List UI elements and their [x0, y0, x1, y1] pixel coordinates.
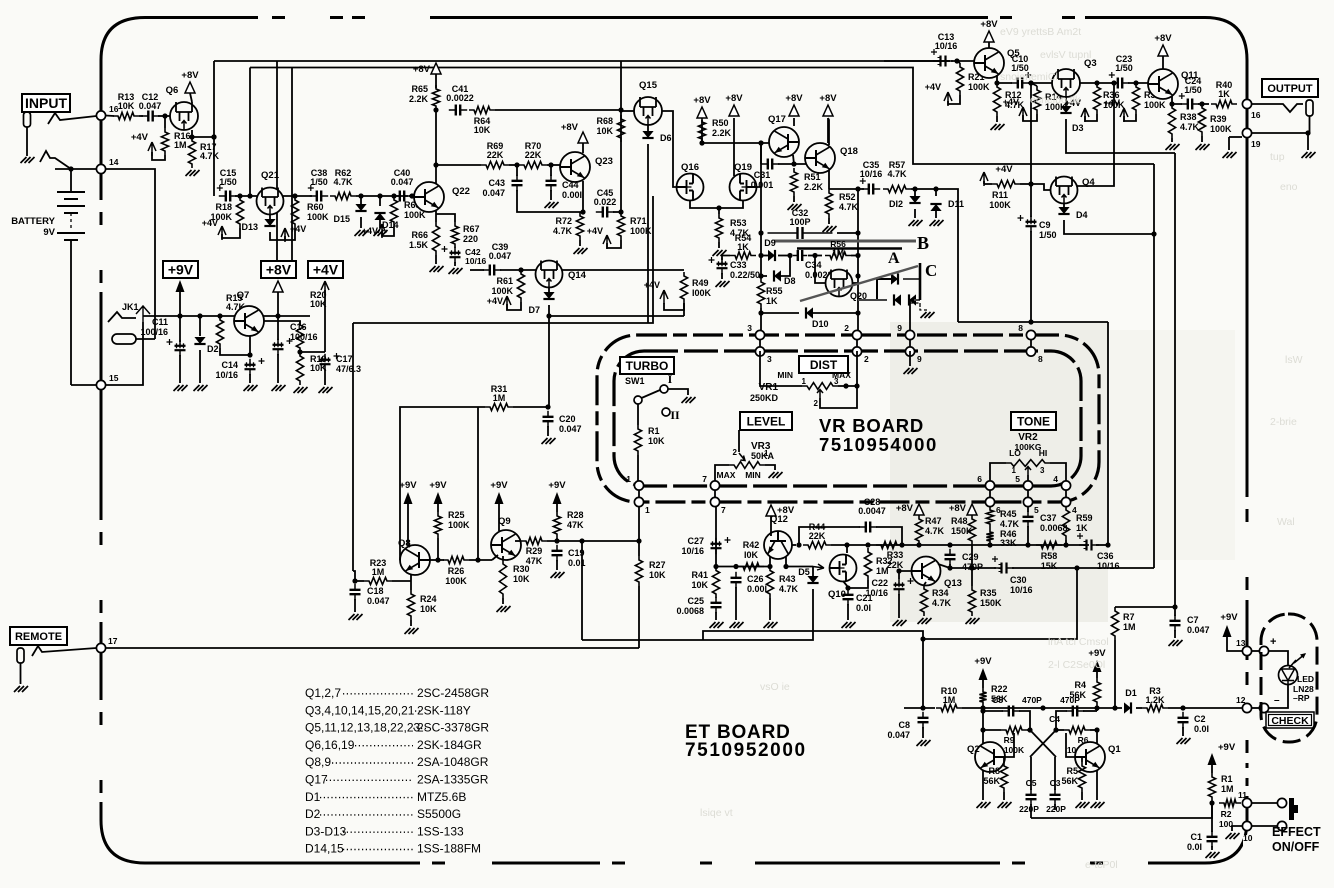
capacitor C10 — [1011, 82, 1018, 84]
+9V arrow — [979, 668, 988, 680]
resistor R24 — [407, 590, 414, 620]
node — [237, 193, 242, 198]
svg-text:9: 9 — [897, 323, 902, 333]
svg-text:1K: 1K — [766, 296, 778, 306]
node — [514, 162, 519, 167]
transistor Q23 — [560, 152, 590, 182]
transistor Q15 — [634, 97, 662, 125]
wire C36 to x1108 — [1096, 544, 1108, 546]
+4V label box — [308, 261, 343, 278]
wire staircase — [703, 631, 923, 709]
svg-text:16: 16 — [1251, 110, 1261, 120]
wire Q17 emitter — [793, 155, 794, 164]
capacitor C43 — [516, 165, 518, 176]
svg-text:4.7K: 4.7K — [553, 226, 573, 236]
svg-text:10/16: 10/16 — [865, 588, 888, 598]
wire Q15 drain — [662, 111, 676, 187]
svg-text:C9: C9 — [1039, 220, 1051, 230]
capacitor C12 — [141, 115, 148, 117]
svg-text:0.047: 0.047 — [482, 188, 505, 198]
svg-text:1K: 1K — [1218, 89, 1230, 99]
ground — [542, 438, 556, 444]
resistor R28 — [553, 512, 560, 538]
svg-text:0.0022: 0.0022 — [446, 93, 474, 103]
svg-text:Q1: Q1 — [1108, 744, 1121, 755]
svg-text:470P: 470P — [1060, 695, 1080, 705]
svg-text:+9V: +9V — [1218, 742, 1236, 753]
+4V arrow — [1019, 107, 1027, 121]
diode D8 — [774, 270, 781, 281]
+9V arrow — [1223, 625, 1232, 637]
ground — [174, 385, 188, 391]
wire main row — [831, 544, 919, 546]
resistor R25 — [434, 512, 441, 538]
wire base row — [436, 164, 481, 166]
resistor R30 — [499, 560, 506, 598]
svg-text:+8V: +8V — [693, 95, 711, 106]
capacitor C2 — [1182, 712, 1184, 718]
resistor R1 flip-flop — [1211, 765, 1213, 773]
svg-text:C30: C30 — [1010, 575, 1027, 585]
remote jack — [17, 648, 24, 663]
resistor R42 — [738, 563, 764, 570]
svg-text:3: 3 — [747, 323, 752, 333]
svg-text:10K: 10K — [691, 580, 708, 590]
svg-text:4.7K: 4.7K — [925, 526, 945, 536]
svg-text:1K: 1K — [737, 242, 749, 252]
transistor Q20 — [826, 270, 853, 297]
node — [791, 161, 796, 166]
svg-text:D3: D3 — [1072, 123, 1084, 133]
+9V arrow — [176, 280, 185, 292]
svg-text:R34: R34 — [932, 588, 949, 598]
svg-text:14: 14 — [109, 157, 119, 167]
svg-text:+8V: +8V — [777, 505, 795, 516]
capacitor C27 — [715, 538, 717, 544]
wire — [829, 188, 864, 190]
svg-text:lsiqe vt: lsiqe vt — [700, 807, 733, 819]
ground — [194, 385, 208, 391]
svg-text:Q1,2,7: Q1,2,7 — [305, 686, 341, 700]
svg-text:0.0047: 0.0047 — [858, 506, 886, 516]
svg-text:1M: 1M — [493, 393, 506, 403]
svg-text:11: 11 — [1238, 790, 1247, 800]
input jack sleeve contact — [40, 151, 71, 169]
resistor R65 — [432, 85, 439, 110]
svg-text:R67: R67 — [463, 224, 480, 234]
svg-text:C2: C2 — [1194, 714, 1206, 724]
ground — [930, 220, 944, 226]
wire — [106, 115, 114, 118]
wire D5 down — [582, 589, 813, 640]
svg-text:lsW: lsW — [1285, 354, 1303, 366]
wire — [492, 555, 498, 560]
ground — [545, 202, 559, 208]
ground stub pin10 — [1232, 826, 1242, 831]
svg-text:Q15: Q15 — [639, 80, 658, 91]
ground — [966, 618, 980, 624]
svg-text:Q6: Q6 — [166, 85, 179, 96]
node — [713, 564, 718, 569]
node — [409, 193, 414, 198]
VR board outer outline — [597, 335, 1099, 502]
svg-text:47K: 47K — [567, 520, 584, 530]
LEVEL label box — [740, 412, 792, 430]
transistor Q14 — [536, 261, 563, 288]
transistor Q8 — [400, 545, 430, 575]
svg-text:1M: 1M — [372, 567, 385, 577]
wire — [264, 321, 300, 325]
resistor R10 — [936, 704, 962, 711]
pin 11 — [1242, 798, 1251, 807]
svg-text:1: 1 — [645, 505, 650, 515]
node — [916, 542, 921, 547]
svg-text:10/16: 10/16 — [1010, 585, 1033, 595]
ground — [319, 387, 333, 393]
wire Q13 base — [899, 571, 912, 579]
resistor R16 — [164, 116, 166, 128]
+8V arrow — [967, 504, 977, 515]
svg-text:100K: 100K — [491, 286, 513, 296]
diode D4 — [1063, 203, 1065, 207]
diode D13 — [264, 219, 275, 226]
node — [162, 113, 167, 118]
power rail wire — [143, 315, 310, 317]
resistor R51 — [790, 168, 797, 196]
ground — [1302, 152, 1316, 158]
svg-text:2SA-1048GR: 2SA-1048GR — [417, 755, 489, 769]
svg-text:Q9: Q9 — [498, 516, 511, 527]
wire LED bottom — [1269, 684, 1288, 708]
resistor R72 — [576, 212, 583, 240]
resistor R40 — [1211, 100, 1237, 107]
svg-text:1K: 1K — [1076, 523, 1088, 533]
svg-text:220P: 220P — [1019, 804, 1039, 814]
svg-text:+4V: +4V — [1104, 98, 1120, 108]
ground — [551, 572, 565, 578]
svg-text:R25: R25 — [448, 510, 465, 520]
svg-text:R29: R29 — [526, 546, 543, 556]
svg-text:+4V: +4V — [362, 226, 378, 236]
resistor R6 — [1064, 726, 1090, 733]
svg-text:Q17: Q17 — [768, 114, 786, 125]
transistor Q13 — [912, 557, 941, 586]
svg-text:S5500G: S5500G — [417, 807, 461, 821]
svg-text:10K: 10K — [474, 125, 491, 135]
resistor R21 — [956, 63, 963, 95]
capacitor C24 — [1181, 103, 1188, 105]
svg-text:C17: C17 — [336, 354, 353, 364]
svg-text:100K: 100K — [448, 520, 470, 530]
svg-text:I00K: I00K — [692, 288, 712, 298]
svg-text:3: 3 — [834, 377, 839, 386]
resistor R9 — [1001, 726, 1027, 733]
ground — [991, 124, 1005, 130]
capacitor C23 — [1111, 82, 1118, 84]
svg-text:7: 7 — [721, 505, 726, 515]
svg-text:R8: R8 — [988, 766, 1000, 776]
svg-text:R58: R58 — [1041, 551, 1058, 561]
svg-text:4.7K: 4.7K — [887, 169, 907, 179]
svg-text:0.0I: 0.0I — [856, 603, 871, 613]
svg-text:+8V: +8V — [785, 93, 803, 104]
wire Q4 drain — [1077, 83, 1114, 186]
svg-text:D6: D6 — [660, 133, 672, 143]
input jack tip arm — [48, 113, 96, 124]
svg-text:C: C — [925, 261, 937, 280]
dashed ground stub — [910, 303, 928, 310]
capacitor C8 — [922, 712, 924, 718]
resistor R27 — [635, 556, 642, 586]
wire bottom run — [1031, 803, 1212, 818]
scan shading — [890, 322, 1108, 622]
pin 17 — [96, 643, 105, 652]
svg-text:0.00I: 0.00I — [747, 584, 767, 594]
node — [1209, 800, 1214, 805]
resistor R52 — [825, 189, 832, 218]
svg-text:OUTPUT: OUTPUT — [1267, 83, 1313, 95]
+8V arrow — [988, 42, 990, 48]
svg-text:+9V: +9V — [974, 656, 992, 667]
transistor Q7 — [234, 306, 264, 336]
svg-text:R47: R47 — [925, 516, 942, 526]
wire — [495, 109, 621, 111]
capacitor C18 — [354, 584, 356, 590]
resistor R37 — [1132, 83, 1139, 114]
capacitor C35 — [862, 188, 869, 190]
svg-text:R26: R26 — [448, 566, 465, 576]
capacitor C45 — [596, 211, 603, 213]
capacitor C30 — [972, 567, 996, 569]
+8V arrow — [273, 281, 283, 292]
svg-text:C34: C34 — [805, 260, 822, 270]
VR board inner outline — [614, 351, 1081, 486]
resistor R69 — [481, 161, 509, 168]
resistor R46 — [986, 528, 993, 545]
wire C30 right — [1012, 567, 1154, 569]
input jack tip contact — [24, 112, 31, 127]
resistor R53 — [715, 214, 722, 242]
capacitor C31 — [760, 143, 762, 164]
svg-text:10/16: 10/16 — [465, 256, 487, 266]
svg-text:10: 10 — [1243, 833, 1253, 843]
capacitor C34 — [793, 255, 798, 257]
svg-text:C22: C22 — [871, 578, 888, 588]
resistor R4 — [1093, 678, 1100, 706]
resistor R31 — [485, 403, 513, 410]
svg-text:Q18: Q18 — [840, 146, 858, 157]
svg-text:13: 13 — [1236, 638, 1246, 648]
svg-text:R41: R41 — [691, 570, 708, 580]
svg-text:BATTERY: BATTERY — [11, 216, 55, 227]
svg-text:10/16: 10/16 — [681, 546, 704, 556]
ground — [14, 686, 28, 692]
wire D7 down — [548, 305, 549, 408]
resistor R56 — [825, 252, 851, 259]
svg-text:D1: D1 — [305, 790, 321, 804]
svg-text:R18: R18 — [215, 202, 232, 212]
svg-text:A: A — [888, 250, 900, 267]
resistor R1 — [637, 404, 639, 425]
pin 13 — [1242, 646, 1251, 655]
svg-text:0.047: 0.047 — [559, 424, 582, 434]
VR board pin 6 — [989, 481, 991, 506]
+8V arrow — [1162, 56, 1164, 69]
ground — [21, 157, 35, 163]
wire — [547, 540, 639, 542]
svg-text:C29: C29 — [962, 552, 979, 562]
node — [812, 253, 817, 258]
ground — [764, 622, 778, 628]
transistor Q18 — [805, 143, 835, 173]
wire pin7 down — [715, 506, 717, 566]
ground — [349, 614, 363, 620]
resistor R14 — [1033, 86, 1040, 114]
OUTPUT label box — [1262, 79, 1318, 97]
svg-text:LED: LED — [1297, 674, 1314, 684]
svg-text:LEVEL: LEVEL — [747, 414, 786, 428]
svg-text:R4: R4 — [1074, 680, 1086, 690]
resistor R20 — [296, 321, 303, 352]
pin 16 output — [1242, 99, 1251, 108]
svg-text:+4V: +4V — [995, 164, 1013, 175]
svg-text:C25: C25 — [687, 596, 704, 606]
svg-text:0.22/50: 0.22/50 — [730, 270, 760, 280]
wire tone top link — [958, 321, 1108, 323]
resistor R62 — [330, 192, 356, 199]
wire VR3 — [738, 430, 740, 452]
wire Q22 collector — [435, 110, 437, 184]
output wire — [1252, 104, 1303, 112]
pin 9 ground — [909, 351, 911, 366]
node — [475, 557, 480, 562]
ground — [244, 385, 258, 391]
svg-text:Q7: Q7 — [237, 290, 250, 301]
SW1 ground — [668, 389, 688, 395]
node — [518, 267, 523, 272]
svg-text:220P: 220P — [1046, 804, 1066, 814]
wire Q10 gate arm — [813, 564, 824, 570]
wire — [353, 571, 355, 581]
resistor R19 — [296, 352, 303, 385]
svg-text:10/16: 10/16 — [935, 41, 958, 51]
diode D2 — [199, 316, 201, 336]
resistor R34 — [920, 585, 927, 616]
svg-text:R60: R60 — [307, 202, 324, 212]
svg-text:+8V: +8V — [561, 122, 579, 133]
wire to C13 — [884, 60, 950, 62]
svg-text:15: 15 — [109, 373, 119, 383]
pin 16 — [96, 111, 105, 120]
VR board pin 9 — [909, 331, 911, 356]
svg-text:19: 19 — [1251, 139, 1261, 149]
svg-text:R24: R24 — [420, 594, 437, 604]
transistor Q9 — [491, 530, 521, 560]
capacitor C19 — [556, 545, 558, 551]
capacitor C3 220P — [1054, 757, 1056, 790]
svg-text:9: 9 — [917, 354, 922, 364]
resistor R2 — [1219, 799, 1241, 806]
svg-text:REMOTE: REMOTE — [15, 631, 62, 643]
svg-text:+8V: +8V — [725, 93, 743, 104]
svg-text:VR BOARD: VR BOARD — [819, 415, 924, 436]
svg-text:22K: 22K — [487, 150, 504, 160]
VR board pin 1 — [638, 481, 640, 506]
svg-text:e-tcP0l: e-tcP0l — [1085, 859, 1118, 871]
svg-text:+9V: +9V — [1220, 612, 1238, 623]
svg-text:100/16: 100/16 — [140, 327, 168, 337]
svg-text:1/50: 1/50 — [1184, 85, 1202, 95]
svg-text:1.2K: 1.2K — [1145, 695, 1165, 705]
ground — [788, 204, 802, 210]
svg-text:8: 8 — [1038, 354, 1043, 364]
wire R10 row — [904, 707, 935, 709]
node — [954, 58, 959, 63]
+4V arrow — [503, 296, 511, 310]
svg-text:Q14: Q14 — [568, 270, 587, 281]
svg-text:C5: C5 — [992, 695, 1003, 705]
ground — [1091, 802, 1105, 808]
transistor Q1 — [1075, 742, 1105, 772]
resistor R48 — [968, 515, 975, 545]
wire — [982, 730, 984, 744]
REMOTE label box — [10, 627, 67, 645]
wire main mid row — [950, 544, 1089, 546]
svg-text:+8V: +8V — [896, 503, 914, 514]
wire — [356, 195, 408, 197]
wire Q14 out — [562, 269, 684, 271]
svg-text:5: 5 — [1015, 474, 1020, 484]
svg-text:0.022: 0.022 — [594, 197, 617, 207]
svg-text:MTZ5.6B: MTZ5.6B — [417, 790, 466, 804]
+4V arrow — [1081, 108, 1089, 122]
pin 10 — [1242, 821, 1251, 830]
wire pin1 chain — [638, 506, 640, 556]
svg-text:1: 1 — [764, 449, 769, 458]
svg-text:R11: R11 — [992, 190, 1008, 200]
JK1 plug — [112, 334, 136, 344]
node 14 — [96, 164, 105, 173]
svg-text:10/16: 10/16 — [215, 370, 238, 380]
wire staircase upper — [923, 568, 1077, 639]
transistor Q4 — [1051, 177, 1078, 204]
output jack — [1306, 100, 1313, 116]
pin 15 — [96, 380, 105, 389]
TURBO label box — [620, 357, 674, 374]
transistor Q12 — [764, 531, 792, 559]
svg-text:2SK-118Y: 2SK-118Y — [417, 703, 471, 717]
resistor R15 — [216, 316, 223, 348]
ground — [917, 740, 931, 746]
svg-text:0.047: 0.047 — [489, 251, 512, 261]
ground — [374, 230, 388, 236]
capacitor C38 — [310, 195, 317, 197]
capacitor C42 — [454, 247, 456, 253]
VR board pin 2 — [856, 331, 858, 356]
transistor Q3 — [1052, 69, 1080, 97]
battery B1 — [70, 169, 72, 192]
capacitor C29 — [949, 549, 951, 555]
svg-text:5: 5 — [1034, 505, 1039, 515]
svg-text:Q8,9: Q8,9 — [305, 755, 331, 769]
wire — [55, 168, 96, 170]
resistor R66 — [432, 222, 439, 255]
svg-text:Wal: Wal — [1277, 516, 1295, 528]
svg-text:R28: R28 — [567, 510, 584, 520]
svg-text:lnA tcl Cmsol: lnA tcl Cmsol — [1048, 636, 1109, 648]
resistor R35 — [968, 586, 975, 616]
svg-text:+9V: +9V — [1088, 648, 1106, 659]
